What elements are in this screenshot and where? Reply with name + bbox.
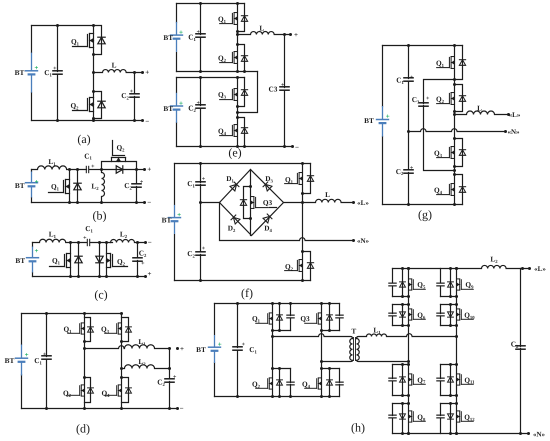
wire after C1 (c) [91, 242, 113, 244]
wire Q3 gate lead extension (f) [270, 207, 277, 209]
junction (g) [407, 44, 410, 47]
wire inductor L to output (g) [455, 111, 509, 115]
wire Q2 body-diode branch (a) [94, 92, 102, 119]
svg-text:+: + [140, 179, 144, 185]
wire C1/C2 split column (g) [408, 46, 410, 205]
junction (a) [92, 117, 95, 120]
battery BT [170, 93, 183, 123]
junction (g) [407, 130, 410, 133]
wire left leg (d) [84, 314, 86, 409]
body diode of Q1 (b) [74, 183, 81, 190]
junction (g) [453, 113, 456, 116]
wire left leg (h) [272, 304, 274, 397]
body diode of Q1 (f) [307, 176, 313, 182]
capacitor C1 (a) [52, 71, 63, 74]
body diode of Q2 (f) [307, 263, 313, 269]
wire right switch column (f) [302, 164, 304, 281]
svg-text:C3: C3 [269, 85, 278, 94]
wire battery leads (d) [21, 314, 23, 409]
svg-text:+: + [202, 176, 206, 182]
junction Q5 (h) [401, 267, 404, 270]
svg-text:BT: BT [15, 68, 25, 77]
svg-text:«L»: «L» [509, 111, 521, 119]
junction (f) [301, 192, 304, 195]
wire top rail (g) [383, 45, 463, 47]
diode D1 (f) [230, 182, 239, 191]
transistor Q1 (b) [49, 180, 70, 194]
transistor Q4 (d) [105, 385, 122, 396]
junction Q8 (h) [407, 432, 410, 435]
wire primary bottom lead (h) [322, 361, 353, 362]
body diode of Q5 (h) [400, 282, 406, 287]
wire Q10 top jog (h) [441, 304, 457, 306]
junction (b) [100, 201, 103, 204]
junction (d) [83, 376, 86, 379]
svg-text:+: + [148, 270, 152, 278]
wire Q1 diode column (h) [279, 304, 281, 331]
svg-text:Q3: Q3 [263, 198, 273, 207]
wire Q8 top jog (h) [393, 403, 409, 405]
junction Q6 (h) [401, 324, 404, 327]
body diode of Q2 (a) [98, 101, 105, 108]
wire series link cell1-cell2 (e) [238, 72, 258, 113]
junction left bridge (h) [320, 360, 323, 363]
junction left bridge (h) [236, 395, 239, 398]
junction (d) [83, 347, 86, 350]
transistor Q1 (c) [50, 254, 71, 268]
wire Q6 diode column (h) [402, 305, 404, 326]
svg-text:+: + [177, 211, 181, 219]
diode D4 (f) [263, 214, 272, 223]
body diode of Q4 (d) [126, 388, 132, 393]
wire Q10 bottom jog (h) [441, 325, 457, 327]
svg-text:+: + [202, 246, 206, 252]
junction (b) [76, 168, 79, 171]
snubber capacitor of Q3 (h) [335, 315, 343, 318]
svg-text:BT: BT [163, 33, 173, 42]
wire top rail (d) [22, 313, 122, 315]
junction (a) [92, 24, 95, 27]
wire battery top lead (a) [31, 26, 33, 53]
junction Q7 (h) [407, 394, 410, 397]
wire bottom rail (g) [383, 204, 463, 206]
junction (a) [92, 119, 95, 122]
wire Q5 snubber cap column (h) [392, 269, 394, 297]
junction matrix (h) [407, 360, 410, 363]
junction (e) [236, 111, 239, 114]
junction (e) [283, 145, 286, 148]
wire battery leads (b) [31, 170, 33, 203]
wire Q1 diode branch (g) [455, 46, 463, 80]
junction (c) [77, 275, 80, 278]
svg-text:(f): (f) [241, 286, 253, 300]
wire Q6 bottom jog (h) [393, 325, 409, 327]
wire C2 column (e) [200, 78, 202, 147]
wire battery leads (f) [174, 164, 176, 281]
wire Q10 snubber cap column (h) [440, 305, 442, 326]
junction (e) [236, 43, 239, 46]
wire Q1 bottom jog (h) [273, 330, 291, 332]
junction left bridge (h) [289, 302, 292, 305]
wire matrix column A (h) [408, 269, 410, 434]
wire secondary top lead + inductor L1 with crossover (h) [357, 334, 457, 339]
wire C2 column (f) [200, 203, 202, 281]
wire primary top lead with crossover (h) [273, 334, 353, 339]
transistor Q1 (d) [68, 323, 85, 334]
junction (d) [176, 407, 179, 410]
wire right leg (h) [321, 304, 323, 397]
svg-text:+: + [173, 375, 177, 381]
junction (e) [236, 33, 239, 36]
body diode of Q1 (h) [277, 315, 283, 320]
body diode of Q8 (h) [400, 414, 406, 419]
transistor Q2 (a) [73, 98, 94, 112]
wire secondary bottom lead (h) [357, 361, 409, 362]
junction (g) [453, 78, 456, 81]
junction (d) [120, 312, 123, 315]
junction (a) [92, 90, 95, 93]
body diode of Q2 (h) [277, 380, 283, 385]
capacitor C1 (f) [195, 182, 206, 185]
wire diode D2 column (c) [99, 243, 101, 277]
wire bottom rail (f) [175, 280, 311, 282]
wire battery leads (h) [214, 304, 216, 397]
transistor Q5 (h) [409, 279, 426, 290]
junction matrix (h) [521, 267, 524, 270]
transistor Q3 (d) [105, 323, 122, 334]
wire top rail (h) [215, 303, 340, 305]
wire inductor L2 (c) [111, 240, 146, 243]
svg-text:BT: BT [163, 104, 173, 113]
capacitor C2 (f) [195, 252, 206, 255]
junction Q5 (h) [407, 295, 410, 298]
junction Q10 (h) [449, 303, 452, 306]
junction Q12 (h) [449, 402, 452, 405]
capacitor C3 (g) [418, 103, 429, 106]
junction (b) [135, 201, 138, 204]
freewheel diode (b) [116, 166, 123, 173]
transistor Q9 (h) [457, 279, 474, 290]
wire C1 column (d) [46, 314, 48, 409]
junction (f) [301, 250, 304, 253]
junction (e) [283, 33, 286, 36]
capacitor C2 (c) [132, 258, 143, 261]
body diode of Q3 (e) [241, 90, 247, 96]
wire C1 column (f) [200, 164, 202, 203]
transistor Q10 (h) [457, 309, 474, 320]
wire diode D1 column (c) [78, 243, 80, 277]
capacitor C3 (e) [279, 87, 290, 90]
wire matrix top rail + inductor L2 (h) [393, 265, 530, 268]
svg-text:«N»: «N» [357, 237, 370, 245]
transistor Q7 (h) [409, 374, 426, 385]
junction (g) [507, 113, 510, 116]
junction Q10 (h) [455, 324, 458, 327]
wire matrix bottom rail (h) [393, 433, 529, 435]
svg-text:(h): (h) [351, 421, 365, 435]
wire Q4 snubber cap column (h) [339, 369, 341, 397]
wire battery2 leads (e) [176, 78, 178, 147]
junction (d) [176, 347, 179, 350]
svg-text:+: + [179, 99, 183, 107]
capacitor C2 output (h) [515, 346, 526, 349]
junction left bridge (h) [320, 329, 323, 332]
body diode of Q12 (h) [448, 414, 454, 419]
junction Q11 (h) [455, 363, 458, 366]
junction (e) [236, 76, 239, 79]
junction matrix (h) [528, 267, 531, 270]
svg-text:+: + [130, 89, 134, 95]
junction (g) [453, 169, 456, 172]
wire after C1 (b) [90, 169, 102, 171]
svg-text:+: + [196, 30, 200, 36]
wire Q4 diode column (h) [329, 369, 331, 397]
svg-text:BT: BT [364, 116, 374, 125]
body diode of Q2 (g) [459, 96, 465, 102]
junction (a) [56, 119, 59, 122]
body diode of Q1 (a) [98, 37, 105, 44]
wire C1 column (a) [57, 26, 59, 121]
junction Q7 (h) [401, 394, 404, 397]
wire Q1 body-diode branch (a) [94, 26, 102, 55]
wire battery leads (g) [382, 46, 384, 205]
junction left bridge (h) [320, 302, 323, 305]
wire vertical inductor L2 (b) [102, 170, 105, 203]
battery BT [25, 172, 38, 198]
junction (d) [120, 367, 123, 370]
junction (d) [168, 407, 171, 410]
wire C2 column (b) [136, 170, 138, 203]
svg-text:−: − [180, 405, 184, 413]
wire Q3 snubber cap column (h) [339, 304, 341, 331]
junction (e) [243, 70, 246, 73]
junction matrix (h) [407, 267, 410, 270]
transistor Q4 (h) [305, 378, 322, 389]
junction matrix (h) [519, 432, 522, 435]
wire Q12 diode column (h) [450, 404, 452, 434]
junction (d) [168, 367, 171, 370]
junction (f) [249, 185, 252, 188]
capacitor C1 (d) [41, 356, 52, 359]
svg-text:+: + [294, 31, 298, 39]
svg-text:+: + [180, 345, 184, 353]
junction left bridge (h) [278, 302, 281, 305]
transistor Q3 (g) [437, 147, 455, 159]
junction (c) [105, 275, 108, 278]
junction (b) [143, 168, 146, 171]
wire diode column (b) [77, 170, 79, 203]
wire Q2 diode branch (f) [303, 252, 311, 281]
junction Q8 (h) [401, 402, 404, 405]
junction (g) [453, 110, 456, 113]
battery BT [170, 22, 183, 52]
body diode of Q4 (e) [241, 128, 247, 134]
svg-text:«N»: «N» [507, 128, 520, 136]
snubber capacitor of Q8 (h) [388, 415, 396, 418]
junction (a) [141, 119, 144, 122]
svg-text:+: + [141, 261, 145, 267]
junction (f) [301, 162, 304, 165]
wire bottom rail (d) [22, 408, 178, 410]
capacitor C1 (e) [195, 34, 206, 37]
junction (c) [136, 275, 139, 278]
junction Q6 (h) [407, 324, 410, 327]
body diode of Q4 (h) [327, 380, 333, 385]
junction (a) [133, 71, 136, 74]
transistor Q3 (e) [220, 89, 238, 101]
wire Q2 branch jog (b) [102, 162, 137, 170]
junction (b) [68, 201, 71, 204]
body diode of Q9 (h) [448, 282, 454, 287]
junction (d) [120, 340, 123, 343]
wire Q7 diode column (h) [402, 365, 404, 396]
wire bottom rail (a) [32, 120, 143, 122]
svg-text:T: T [351, 327, 356, 336]
junction left bridge (h) [289, 395, 292, 398]
wire flying-cap C3 branch (g) [424, 80, 455, 171]
wire battery bottom lead (a) [31, 93, 33, 121]
junction (g) [453, 173, 456, 176]
svg-text:+: + [386, 112, 390, 120]
junction (a) [141, 71, 144, 74]
junction (g) [453, 165, 456, 168]
junction (g) [453, 137, 456, 140]
body diode of Q3 (h) [327, 315, 333, 320]
wire Q6 snubber cap column (h) [392, 305, 394, 326]
svg-text:+: + [281, 83, 285, 89]
junction Q5 (h) [407, 267, 410, 270]
wire Q10 diode column (h) [450, 305, 452, 326]
wire Q1 diode branch (d) [85, 318, 91, 342]
svg-text:+: + [53, 66, 57, 72]
junction (g) [407, 203, 410, 206]
transistor Q4 (g) [437, 184, 455, 196]
svg-text:+: + [35, 247, 39, 255]
svg-text:BT: BT [15, 181, 25, 190]
svg-text:BT: BT [162, 216, 172, 225]
svg-text:«L»: «L» [357, 199, 369, 207]
junction Q12 (h) [449, 432, 452, 435]
wire top rail (a) [32, 25, 94, 27]
wire bottom rail (c) [33, 276, 146, 278]
junction Q8 (h) [401, 432, 404, 435]
body diode of Q6 (h) [400, 312, 406, 317]
capacitor C1 (g) [403, 78, 414, 81]
junction Q12 (h) [455, 402, 458, 405]
battery BT [26, 247, 39, 273]
body diode of Q1 (d) [88, 327, 94, 332]
body diode of Q10 (h) [448, 312, 454, 317]
wire Q8 snubber cap column (h) [392, 404, 394, 434]
body diode of Q3 (f) [240, 200, 246, 206]
junction (c) [77, 241, 80, 244]
wire + inductor L (a) [94, 70, 143, 73]
capacitor C2 (a) [129, 94, 140, 97]
junction (f) [199, 201, 202, 204]
svg-text:+: + [43, 352, 47, 358]
wire Q9 diode column (h) [450, 269, 452, 297]
body diode of Q2 (e) [241, 56, 247, 62]
junction left bridge (h) [271, 367, 274, 370]
wire diode bridge diamond (f) [220, 170, 284, 236]
svg-text:+: + [145, 69, 149, 77]
junction (b) [76, 201, 79, 204]
wire Q11 top jog (h) [441, 364, 457, 366]
junction (f) [199, 279, 202, 282]
svg-text:+: + [83, 236, 87, 242]
svg-text:+: + [34, 64, 38, 72]
wire Q3 diode branch (f) [244, 187, 251, 219]
junction (d) [120, 376, 123, 379]
wire inductor L to output (f) [303, 199, 354, 202]
wire battery1 leads (e) [176, 4, 178, 72]
svg-text:(a): (a) [77, 132, 90, 146]
capacitor C2 (d) [164, 379, 175, 382]
wire C2 column (a) [134, 73, 136, 121]
body diode of Q3 (g) [459, 150, 465, 156]
junction (e) [243, 145, 246, 148]
junction (e) [199, 76, 202, 79]
wire Q2 snubber cap column (h) [290, 369, 292, 397]
svg-text:BT: BT [196, 345, 206, 354]
snubber capacitor of Q2 (h) [286, 382, 294, 385]
junction (f) [301, 201, 304, 204]
junction (b) [100, 168, 103, 171]
battery BT [208, 335, 221, 363]
svg-text:−: − [147, 199, 151, 207]
junction (f) [249, 217, 252, 220]
junction (a) [92, 71, 95, 74]
wire top rail left + inductor L1 (b) [32, 166, 87, 170]
wire Q3 diode column (h) [329, 304, 331, 331]
transistor Q2 (d) [68, 385, 85, 396]
wire cell2 switch column (e) [237, 78, 239, 147]
wire Q3 column (f) [250, 170, 252, 236]
svg-text:+: + [410, 75, 414, 81]
wire right-leg mid to inductor L2 (d) [122, 365, 170, 369]
snubber capacitor of Q12 (h) [436, 415, 444, 418]
svg-text:(g): (g) [418, 208, 432, 222]
svg-text:«L»: «L» [534, 265, 546, 273]
junction (e) [236, 2, 239, 5]
wire Q3 bottom jog (h) [322, 330, 340, 332]
wire right leg (d) [121, 314, 123, 409]
capacitor C2 (b) [131, 184, 142, 187]
wire top rail + inductor L1 (c) [33, 239, 87, 242]
capacitor C1 (h) [232, 347, 243, 350]
wire half-bridge column (a) [93, 26, 95, 121]
junction left bridge (h) [271, 302, 274, 305]
wire Q5 bottom jog (h) [393, 296, 409, 298]
wire left-leg mid to inductor L1 with crossover (d) [85, 345, 170, 349]
junction left bridge (h) [328, 395, 331, 398]
wire right vertex to column (f) [284, 202, 303, 204]
wire to output terminal (b) [137, 169, 145, 171]
wire Q4 diode branch (g) [455, 175, 463, 205]
junction (c) [69, 241, 72, 244]
wire inductor L (e) [238, 32, 291, 35]
junction (a) [56, 24, 59, 27]
wire Q7 snubber cap column (h) [392, 365, 394, 396]
junction Q9 (h) [449, 295, 452, 298]
snubber capacitor of Q11 (h) [436, 378, 444, 381]
transistor Q12 (h) [457, 411, 474, 422]
junction (c) [136, 241, 139, 244]
body diode of Q11 (h) [448, 377, 454, 382]
transistor Q11 (h) [457, 374, 474, 385]
junction left bridge (h) [278, 367, 281, 370]
junction (d) [83, 340, 86, 343]
